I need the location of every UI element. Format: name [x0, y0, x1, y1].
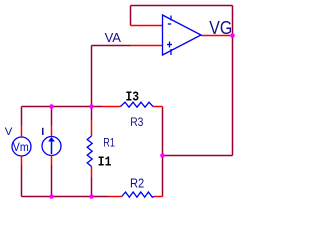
wire: VA vertical down — [91, 46, 93, 107]
wire: right mid vertical — [162, 107, 164, 197]
wire: Vm branch lower — [21, 165, 23, 197]
svg-text:R2: R2 — [130, 176, 144, 190]
op-amp power pin tick top — [170, 16, 172, 21]
label I (current source) — [42, 128, 44, 135]
resistor R1 leads — [91, 120, 93, 136]
svg-text:R1: R1 — [103, 136, 115, 150]
current source I lead top — [51, 126, 53, 137]
node dot: Vm top junction — [49, 104, 54, 109]
voltage source Vm circle — [12, 137, 31, 156]
resistor R3 zigzag — [121, 102, 154, 107]
node dot: mid-right junction — [160, 153, 165, 158]
wire: right edge vertical — [232, 6, 234, 156]
wire: top rail — [22, 106, 103, 108]
resistor R3 leads — [102, 106, 121, 108]
op-amp minus input marker — [168, 23, 171, 25]
svg-text:R3: R3 — [130, 116, 143, 129]
wire: I branch lower — [51, 165, 53, 197]
wire: mid horizontal to right edge — [163, 155, 233, 157]
wire: R1 branch upper — [91, 107, 93, 121]
op-amp plus input marker — [167, 44, 172, 46]
node dot: R1 bottom junction — [89, 194, 94, 199]
svg-text:I1: I1 — [98, 156, 112, 171]
svg-text:V: V — [5, 126, 13, 138]
current source I lead bottom — [51, 156, 53, 166]
wire: feedback left vertical — [130, 6, 132, 26]
svg-text:VA: VA — [105, 31, 122, 45]
wire: R1 branch lower — [91, 178, 93, 197]
op-amp power pin tick bottom — [170, 49, 172, 55]
wire: feedback top horizontal — [131, 5, 233, 7]
voltage source Vm lead top — [21, 126, 23, 138]
wire: I branch upper — [51, 107, 53, 126]
svg-text:I3: I3 — [126, 90, 140, 106]
resistor R2 zigzag — [122, 192, 155, 197]
node dot: VG output junction — [230, 33, 235, 38]
op-amp U1 triangle — [163, 15, 202, 55]
node dot: R1/VA top junction — [89, 104, 94, 109]
current source I circle — [42, 137, 61, 156]
node dot: I bottom junction — [49, 194, 54, 199]
svg-text:VG: VG — [209, 17, 232, 38]
wire: VA horizontal — [92, 45, 131, 47]
op-amp U1 leads (red pins) — [131, 25, 163, 27]
svg-text:Vm: Vm — [13, 140, 29, 154]
resistor R1 zigzag — [87, 136, 92, 167]
voltage source Vm lead bottom — [21, 156, 23, 165]
current source I arrow — [51, 141, 53, 154]
wire: Vm branch upper — [21, 107, 23, 126]
wire: bottom rail — [22, 196, 109, 198]
resistor R2 leads — [109, 196, 122, 198]
